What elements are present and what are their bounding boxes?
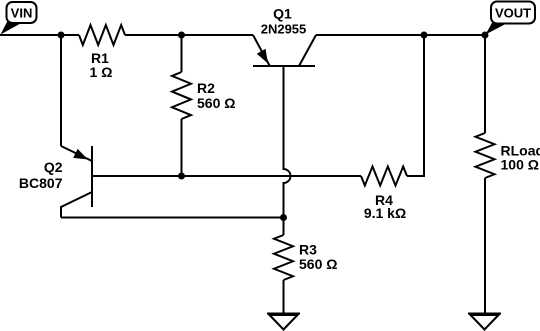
node junction at R1/R2 — [178, 32, 185, 39]
wire: Q1 collector to VOUT — [316, 34, 485, 36]
svg-text:VIN: VIN — [11, 6, 33, 21]
svg-text:VOUT: VOUT — [495, 6, 531, 21]
wire: RLoad bottom lead — [484, 178, 486, 314]
Q2 emitter lead — [61, 146, 92, 161]
svg-text:560 Ω: 560 Ω — [299, 256, 337, 272]
node junction at VIN/Q2 emitter — [58, 32, 65, 39]
resistor R1 — [79, 25, 125, 45]
resistor R3 — [274, 235, 293, 280]
resistor R2 — [172, 72, 191, 119]
svg-text:9.1 kΩ: 9.1 kΩ — [364, 205, 406, 221]
Q1 emitter arrow — [257, 49, 268, 64]
Q1 base bar — [253, 65, 315, 67]
Q1 collector lead — [299, 35, 316, 66]
terminal VOUT — [486, 2, 536, 35]
node junction at VOUT/RLoad — [482, 32, 489, 39]
wire: RLoad top lead — [484, 35, 486, 133]
transistor Q2 — [61, 146, 92, 218]
wire: R2 bottom lead — [181, 119, 183, 176]
svg-text:1 Ω: 1 Ω — [90, 64, 113, 80]
ground (RLoad) — [468, 314, 501, 330]
node junction at R4 top — [421, 32, 428, 39]
wire: Q1 base down with hop over base wire — [284, 66, 291, 235]
wire: top rail VIN to Q1 emitter — [0, 34, 79, 36]
svg-text:BC807: BC807 — [19, 175, 63, 191]
svg-text:560 Ω: 560 Ω — [197, 95, 235, 111]
Q2 emitter arrow — [73, 149, 88, 160]
wire: R4 right lead up to top rail — [407, 35, 424, 176]
svg-text:R2: R2 — [197, 80, 215, 96]
svg-text:2N2955: 2N2955 — [261, 22, 307, 37]
wire: R2 top lead — [181, 35, 183, 72]
Q2 base bar — [91, 146, 93, 207]
transistor Q1 — [253, 35, 316, 66]
Q1 emitter lead — [253, 35, 270, 66]
wire: Q2 collector to R3 node — [61, 217, 284, 219]
Q2 collector lead — [61, 192, 92, 218]
resistor R4 — [361, 167, 407, 186]
node junction R2/base wire — [178, 173, 185, 180]
ground (R3) — [267, 314, 300, 330]
wire: Q2 base to R4 (horizontal) — [92, 175, 361, 177]
resistor RLoad — [476, 133, 495, 178]
terminal VIN — [1, 2, 37, 35]
wire: R3 bottom lead — [283, 280, 285, 314]
svg-text:Q2: Q2 — [44, 159, 63, 175]
wire: R1 to Q1 emitter — [125, 34, 253, 36]
wire: Q2 emitter from top rail — [60, 35, 62, 146]
svg-text:Q1: Q1 — [273, 6, 292, 22]
svg-text:100 Ω: 100 Ω — [501, 157, 539, 173]
node junction Q1 base / Q2 collector / R3 — [280, 214, 287, 221]
